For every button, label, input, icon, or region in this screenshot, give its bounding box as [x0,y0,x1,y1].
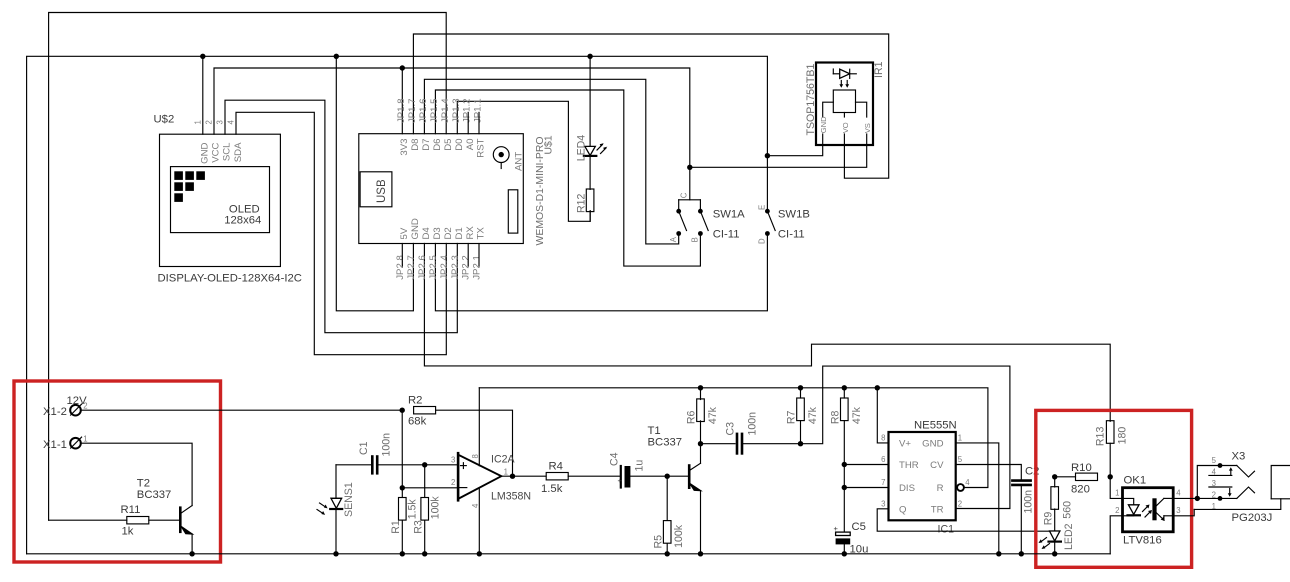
OK1 pin 2 wire [1110,516,1122,554]
svg-text:1: 1 [504,468,508,477]
capacitor C4 electrolytic [620,466,622,488]
svg-text:ANT: ANT [514,152,525,171]
transistor T2 BC337 [179,508,182,532]
svg-text:DISPLAY-OLED-128X64-I2C: DISPLAY-OLED-128X64-I2C [158,273,302,285]
svg-text:BC337: BC337 [137,489,172,501]
svg-text:R1: R1 [390,520,402,534]
svg-text:E: E [758,205,767,210]
junction T1 collector node [698,441,703,446]
svg-text:JP1.4: JP1.4 [440,98,451,123]
IC2A pin 4 drop to rail [478,488,480,554]
svg-text:A: A [669,236,678,242]
svg-text:47k: 47k [707,406,719,424]
svg-text:47k: 47k [851,406,863,424]
svg-text:JP1.7: JP1.7 [407,98,418,123]
svg-text:JP2.5: JP2.5 [428,255,439,280]
svg-text:R4: R4 [549,461,563,473]
red highlight box around X1/T2 [14,381,221,562]
svg-text:C: C [680,192,689,198]
svg-text:1.5k: 1.5k [407,499,419,520]
svg-text:SCL: SCL [222,142,233,161]
junction LED4 anode branch [587,54,592,59]
junction C5 on rail [842,551,847,556]
junction IC2A pin4 on rail [477,551,482,556]
junction R1 top IC2A -input [400,485,405,490]
svg-text:A0: A0 [465,139,476,151]
X3 switch arrow down [1229,489,1231,495]
svg-text:R3: R3 [412,520,424,534]
svg-text:47k: 47k [807,406,819,424]
svg-text:DIS: DIS [899,483,915,494]
wire GND bottom rail [27,553,1111,555]
junction R13 / R10 node [1108,474,1113,479]
junction R7 bottom / C3 node [798,441,803,446]
svg-text:1: 1 [1115,489,1119,498]
resistor R9 [1054,477,1056,487]
svg-text:X3: X3 [1232,451,1246,463]
X3 jack body [1271,466,1290,499]
junction LED2 on rail [1052,551,1057,556]
photodiode SENS1 [335,465,337,499]
pin stub JP2.8 [401,244,403,267]
IR receiver IR1 TSOP1756TB1 box [816,63,873,146]
svg-text:3: 3 [1212,479,1216,488]
svg-text:R13: R13 [1095,427,1107,447]
SENS1 incoming light arrows [320,503,326,507]
resistor R8 [843,388,845,398]
wire net D5 top bus (JP1.4 to T2 base branch) [49,13,447,521]
wire IR1 VS to SW1A pole net [690,145,867,167]
svg-text:R: R [937,483,944,494]
terminal X1-2 pad [70,405,81,416]
LED LED4 [589,56,591,146]
svg-text:5V: 5V [399,227,410,239]
wire DIS to IC1 [844,487,888,489]
wire IC1 GND pin to rail [956,443,999,554]
switch SW1B [765,209,770,214]
wire C3 to R7 bottom [743,443,800,445]
svg-text:4: 4 [471,503,480,508]
wire R12 bottom [589,212,591,222]
IC2A minus sign [460,487,467,489]
svg-text:SW1A: SW1A [713,209,745,221]
resistor R4 [546,473,568,480]
X3 ring switch lever [1237,487,1255,498]
resistor R2 [414,407,436,414]
pin stub JP2.1 [478,244,480,267]
svg-text:R7: R7 [786,410,798,424]
svg-text:180: 180 [1117,427,1129,445]
svg-text:2: 2 [1115,506,1119,515]
OK1 pin 1 wire [1110,477,1122,499]
svg-text:X1-1: X1-1 [43,439,67,451]
junction IR1 GND / SW1B [765,153,770,158]
svg-text:LM358N: LM358N [491,491,531,503]
svg-text:C1: C1 [358,441,370,455]
pin stub JP1.2 [467,112,469,133]
resistor R3 [424,465,426,497]
junction R1 on rail [400,551,405,556]
svg-text:100n: 100n [381,433,393,457]
wire R10 left to R9 [1055,476,1076,478]
wire U$2 pin1 drop [202,56,204,134]
wire X1-2 to R2 row [81,409,403,411]
svg-text:100k: 100k [430,496,442,520]
svg-text:+: + [618,476,623,485]
OK1 pin 3 wire [1173,509,1194,515]
svg-text:OK1: OK1 [1124,475,1147,487]
junction U$2 pin1 GND [200,54,205,59]
switch SW1A [679,199,701,201]
wire net D6b JP2.5 to SW1B contact D [435,234,767,311]
wire X1-1 to T2 collector [81,443,193,505]
resistor R6 [700,388,702,400]
svg-text:BC337: BC337 [648,437,683,449]
IR1 photodiode [833,73,839,75]
svg-text:VCC: VCC [211,142,222,162]
svg-text:R8: R8 [829,410,841,424]
wire net D6 (JP1.5 to SW1A contact B) [435,90,700,266]
svg-text:D8: D8 [410,139,421,151]
wire net D7 (JP1.6 to SW1A contact A) [424,79,678,244]
wire IC1 Q output [877,509,1054,531]
transistor T1 BC337 [688,466,691,488]
svg-text:VO: VO [841,122,850,133]
wire net GND to JP2.7 [336,56,413,310]
svg-text:RX: RX [465,226,476,240]
svg-text:JP2.6: JP2.6 [417,255,428,280]
svg-text:PG203J: PG203J [1232,512,1273,524]
wire IC1 CV to C2 [956,465,1022,480]
svg-text:JP2.1: JP2.1 [472,255,483,280]
optocoupler OK1 LTV816 box [1123,488,1174,532]
svg-text:X1-2: X1-2 [43,406,67,418]
wire net D4 (JP2.6 to R13) [424,244,1110,422]
svg-text:U$2: U$2 [154,114,175,126]
svg-text:R9: R9 [1043,512,1055,526]
OLED logo squares [174,171,183,180]
wire net VCC bus (U$2 pin2 - JP1.8 - SW1A pole) [214,68,690,200]
svg-text:CV: CV [930,460,944,471]
IC1 NE555N box [889,432,956,520]
IC2A plus sign [461,465,467,467]
svg-text:6: 6 [881,455,885,464]
svg-text:CI-11: CI-11 [778,228,805,240]
OLED module U$2 outline [160,134,281,266]
junction IC1 GND on rail [996,551,1001,556]
svg-text:SW1B: SW1B [778,209,810,221]
svg-text:8: 8 [881,434,885,443]
wire collector to C3 [701,443,736,445]
wire C2 to rail [1020,486,1022,554]
IR1 GND pin [823,102,834,117]
svg-text:C3: C3 [724,422,736,436]
svg-text:4: 4 [226,120,235,125]
op-amp IC2A LM358N [458,455,501,499]
pin stub JP1.1 [478,112,480,133]
svg-text:R10: R10 [1071,462,1092,474]
wire C1 to IC2A +input [379,464,459,466]
svg-text:4: 4 [965,478,970,487]
wire D5 net to R11 [49,519,127,521]
svg-text:D6: D6 [432,139,443,151]
wire net GND top bus [27,56,768,554]
svg-text:NE555N: NE555N [914,420,957,432]
svg-text:1u: 1u [634,460,646,472]
svg-text:5: 5 [1212,456,1217,465]
svg-text:GND: GND [410,218,421,239]
wire LED4 to R12 [589,156,591,190]
svg-text:RST: RST [476,138,487,157]
LED2 emission arrows [1041,538,1047,542]
svg-text:Q: Q [899,505,906,516]
svg-text:D4: D4 [421,227,432,240]
svg-text:C4: C4 [609,452,621,466]
junction GND-JP2.7 branch [334,54,339,59]
junction IR1 VS / SW1A pole [687,165,692,170]
IR1 VS pin [856,102,867,117]
junction DIS node [842,485,847,490]
svg-text:3: 3 [1176,506,1180,515]
X3 row 3 contact [1209,486,1232,488]
svg-text:8: 8 [471,454,480,458]
junction R3 on rail [422,551,427,556]
svg-text:IR1: IR1 [873,61,885,78]
svg-text:2: 2 [451,478,455,487]
junction R5 top [665,474,670,479]
svg-text:VS: VS [863,123,872,133]
svg-text:68k: 68k [408,416,427,428]
wire R2 node down to IC2A -input [401,410,403,488]
wire THR to IC1 [844,464,888,466]
wire net SCL (U$2 pin3 to JP2.3) [225,100,457,333]
wire C4 to T1 base [630,475,688,477]
wire net SDA (U$2 pin4 to JP2.4) [236,112,446,354]
wire R2 to IC2A output [436,410,513,476]
resistor R10 [1076,473,1098,480]
svg-text:128x64: 128x64 [224,215,261,227]
wire R11 to T2 base [149,519,180,521]
svg-text:JP2.7: JP2.7 [406,255,417,280]
svg-text:TR: TR [931,505,944,516]
svg-text:C5: C5 [852,521,866,533]
wire V+ rail [479,388,988,488]
junction SENS1 on rail [333,551,338,556]
svg-text:820: 820 [1071,483,1090,495]
wire C3 node to 555 TR riser [801,366,1010,508]
junction R5 on rail [665,551,670,556]
svg-text:100n: 100n [1023,490,1035,514]
svg-text:R2: R2 [408,395,422,407]
svg-text:D2: D2 [443,227,454,239]
svg-text:JP2.3: JP2.3 [450,255,461,280]
svg-text:JP2.4: JP2.4 [439,255,450,280]
svg-text:U$1: U$1 [544,135,555,154]
IR1 VO pin [843,113,845,118]
OK1 pin 4 wire [1173,497,1197,499]
svg-text:LED2: LED2 [1063,523,1075,550]
junction R7 top on V+ rail [798,385,803,390]
svg-text:D1: D1 [454,227,465,239]
wire net D0 (JP1.3 to R12/LED4) [457,101,590,221]
OK1 phototransistor [1152,498,1156,520]
svg-text:R11: R11 [121,504,141,516]
junction R3 top [422,462,427,467]
svg-text:JP2.8: JP2.8 [395,255,406,280]
svg-text:JP1.3: JP1.3 [451,98,462,123]
resistor R12 [586,189,594,212]
svg-text:R5: R5 [653,535,665,549]
svg-text:B: B [691,237,700,242]
svg-text:2: 2 [958,500,962,509]
wire IC2A -input [402,487,458,489]
pin stub JP2.2 [467,244,469,267]
svg-text:1: 1 [83,435,87,444]
resistor R5 [666,476,668,520]
svg-text:1: 1 [958,434,962,443]
svg-text:1.5k: 1.5k [541,483,563,495]
svg-text:4: 4 [1176,489,1181,498]
junction 555 V+ branch [875,385,880,390]
terminal X1-1 pad [70,438,81,449]
wire IR1 GND to SW1B net [767,145,822,156]
junction T2 emitter on rail [189,551,194,556]
resistor R11 [127,517,149,524]
svg-text:1k: 1k [122,526,134,538]
svg-text:IC2A: IC2A [491,454,515,466]
svg-text:D7: D7 [421,139,432,151]
X3 switch arrow up [1230,470,1232,476]
junction T1 emitter on rail [698,551,703,556]
X3 row 5 wire and tip contact [1197,466,1237,499]
svg-text:2: 2 [204,120,213,124]
wire net D8/VO bus (JP1.7 to IR1 VO) [413,34,888,178]
svg-text:3: 3 [215,120,224,124]
svg-text:R6: R6 [686,410,698,424]
IC2A pin 8 riser and V+ rail start [478,388,480,466]
wire R4 to C4 [568,475,619,477]
svg-text:T1: T1 [648,425,661,437]
X3 row 2 wire and ring contact [1197,497,1237,499]
svg-text:SENS1: SENS1 [343,482,355,517]
wire 555 V+ drop [877,388,888,443]
svg-text:TSOP1756TB1: TSOP1756TB1 [805,64,817,136]
OK1 coupling arrows [1143,507,1148,512]
svg-text:D0: D0 [454,139,465,151]
X3 row 4 contact [1209,474,1232,476]
svg-text:2: 2 [1212,491,1216,500]
junction X3 pin2/pin5 node [1195,496,1200,501]
svg-text:IC1: IC1 [938,524,955,536]
ANT symbol circle [493,147,509,163]
resistor R1 [401,488,403,497]
X3 sleeve row 1 [1194,499,1281,510]
svg-text:JP1.2: JP1.2 [462,98,473,123]
resistor R13 [1106,421,1114,444]
svg-text:1: 1 [193,120,202,124]
IR1 light arrows [840,81,842,87]
wire IC2A output [501,475,546,477]
junction IC2A output [510,474,515,479]
svg-text:3: 3 [881,500,885,509]
svg-text:USB: USB [376,179,388,203]
svg-text:100n: 100n [747,412,759,436]
wire T1 collector [700,444,702,464]
antenna bar [508,190,518,233]
svg-text:JP1.6: JP1.6 [418,98,429,123]
junction JP1.8 on VCC bus [400,65,405,70]
svg-text:TX: TX [476,227,487,240]
svg-text:D5: D5 [443,139,454,151]
red highlight box around OK1 [1036,410,1192,567]
junction R6 top on V+ rail [698,385,703,390]
svg-text:JP1.1: JP1.1 [473,98,484,123]
X3 tip switch lever [1237,466,1255,478]
svg-text:D: D [758,238,767,244]
svg-text:THR: THR [899,460,919,471]
capacitor C2 [1012,479,1030,482]
svg-text:JP1.5: JP1.5 [429,98,440,123]
svg-text:GND: GND [200,142,211,163]
OLED inner screen box [171,167,270,233]
capacitor C1 [371,457,374,474]
junction C2 on rail [1019,551,1024,556]
svg-text:7: 7 [881,478,885,487]
svg-text:5: 5 [958,455,963,464]
svg-text:LTV816: LTV816 [1123,535,1162,547]
svg-text:1: 1 [1212,502,1216,511]
svg-text:JP1.8: JP1.8 [396,98,407,123]
svg-text:GND: GND [922,438,943,449]
wire JP1.8 pin drop [401,68,403,134]
svg-text:V+: V+ [899,438,911,449]
svg-text:CI-11: CI-11 [713,228,740,240]
svg-text:JP2.2: JP2.2 [461,255,472,280]
junction THR node [842,462,847,467]
svg-text:LED4: LED4 [575,135,587,162]
svg-text:100k: 100k [673,524,685,548]
WEMOS module U$1 outline [359,134,524,244]
junction R8 top on V+ rail [842,385,847,390]
USB connector box [360,172,392,207]
IR1 detector box [833,90,855,113]
capacitor C3 [736,434,739,454]
wire SENS1 to C1 [336,464,371,466]
OK1 internal LED [1123,498,1134,504]
svg-text:GND: GND [819,116,828,133]
IC1 reset pin bubble [957,484,964,491]
svg-text:3: 3 [451,455,455,464]
svg-text:D3: D3 [432,227,443,239]
svg-text:T2: T2 [137,478,150,490]
svg-text:2: 2 [83,402,87,411]
LED4 emission arrows [597,145,603,151]
junction R10 / R9 node [1052,474,1057,479]
svg-text:R12: R12 [575,193,587,213]
junction X1-2 / R2 / R1 node [400,408,405,413]
LED LED2 [1050,530,1060,532]
svg-text:4: 4 [1212,468,1217,477]
svg-text:560: 560 [1062,501,1074,519]
svg-text:3V3: 3V3 [399,139,410,156]
svg-text:SDA: SDA [233,142,244,162]
resistor R7 [800,388,802,398]
